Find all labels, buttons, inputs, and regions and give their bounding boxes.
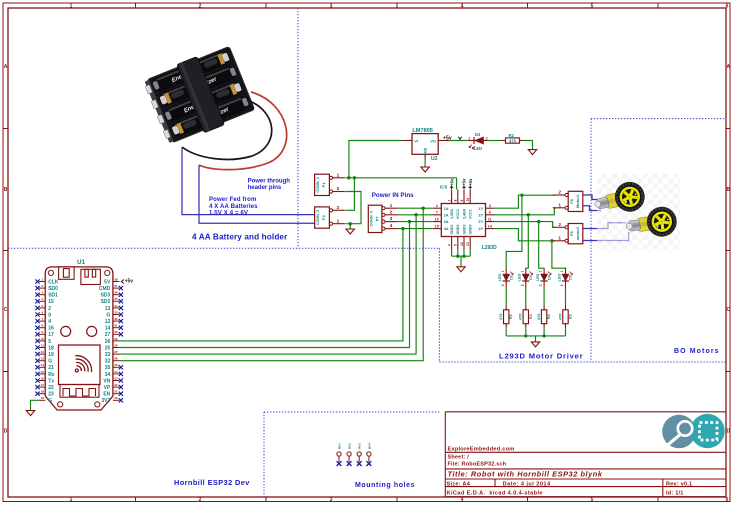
- svg-text:1A: 1A: [444, 206, 449, 211]
- svg-text:3: 3: [489, 204, 491, 208]
- svg-text:34: 34: [114, 304, 118, 308]
- svg-text:D: D: [4, 429, 8, 435]
- U1 left pin Rx: [35, 370, 54, 378]
- junction: [422, 207, 425, 210]
- svg-text:2: 2: [520, 284, 524, 286]
- svg-text:25: 25: [105, 345, 111, 351]
- title block: [445, 412, 726, 497]
- svg-text:LED: LED: [474, 146, 482, 151]
- power +5v at U1 5V pin: [121, 279, 133, 285]
- power +5v at L293D top pin: [468, 178, 473, 189]
- svg-text:12: 12: [105, 319, 111, 325]
- wire battery+ to LM7805 VI: [349, 141, 402, 178]
- wire (blue) P8 to motor1 (b): [583, 206, 601, 211]
- svg-text:Tx: Tx: [48, 378, 54, 384]
- wire R5 to gnd rail: [565, 328, 567, 336]
- svg-text:D4: D4: [475, 132, 481, 137]
- svg-text:3: 3: [330, 3, 333, 9]
- power +5v at L293D top pin: [462, 178, 467, 189]
- wire (blue) battery positive to P2: [199, 165, 315, 223]
- svg-text:1: 1: [558, 202, 561, 208]
- U1 left pin 16: [35, 324, 54, 332]
- svg-text:R2: R2: [509, 133, 515, 138]
- svg-text:C: C: [726, 307, 730, 313]
- svg-text:28: 28: [114, 343, 118, 347]
- power +5v at L293D top pin: [449, 178, 454, 189]
- svg-text:21: 21: [48, 365, 54, 371]
- svg-text:17: 17: [48, 332, 54, 338]
- svg-text:36: 36: [114, 291, 118, 295]
- svg-text:13: 13: [105, 306, 111, 312]
- motor M1 with wheel: [591, 179, 647, 219]
- svg-text:2: 2: [501, 284, 505, 286]
- wire (blue) battery negative to P2: [182, 147, 315, 215]
- U1 left pin 18: [35, 343, 54, 351]
- svg-text:3: 3: [390, 216, 393, 222]
- svg-text:19: 19: [41, 396, 45, 400]
- svg-text:0: 0: [48, 312, 51, 318]
- svg-text:LED: LED: [498, 273, 502, 281]
- svg-text:20: 20: [114, 396, 118, 400]
- svg-text:4: 4: [448, 244, 452, 246]
- svg-text:BO Motors: BO Motors: [674, 348, 720, 355]
- svg-text:32: 32: [105, 359, 111, 365]
- svg-text:VP: VP: [104, 385, 111, 391]
- mounting hole MK3: [357, 443, 362, 466]
- svg-text:1: 1: [337, 172, 340, 178]
- svg-text:470: 470: [537, 314, 541, 320]
- svg-text:CONN_2: CONN_2: [316, 210, 320, 225]
- svg-text:1,2EN: 1,2EN: [450, 209, 454, 219]
- svg-text:1: 1: [337, 218, 340, 224]
- U1 left pin CLK: [35, 277, 59, 285]
- ground below U1: [26, 411, 34, 416]
- ground right of R2: [528, 150, 536, 155]
- wire 3Y net to LED D4b: [539, 222, 544, 269]
- svg-text:25: 25: [114, 363, 118, 367]
- battery pack photo (4 x AA holder): [142, 44, 287, 170]
- svg-text:33: 33: [105, 352, 111, 358]
- svg-text:MK3: MK3: [358, 443, 362, 450]
- U1 left pin SD0: [35, 284, 58, 292]
- svg-text:LED: LED: [536, 273, 540, 281]
- svg-text:4: 4: [461, 3, 464, 9]
- junction: [456, 255, 459, 258]
- svg-text:470: 470: [509, 138, 517, 143]
- svg-text:Power Fed from: Power Fed from: [209, 197, 256, 203]
- svg-text:29: 29: [114, 337, 118, 341]
- wire 1Y net to LED D2: [506, 195, 522, 268]
- svg-text:SD1: SD1: [48, 293, 58, 299]
- svg-text:GND4: GND4: [469, 225, 473, 235]
- svg-text:1: 1: [539, 270, 543, 272]
- svg-text:26: 26: [105, 339, 111, 345]
- resistor R3 470: [519, 306, 533, 329]
- svg-text:2: 2: [436, 204, 438, 208]
- svg-text:R3: R3: [529, 314, 533, 319]
- junction: [520, 194, 523, 197]
- svg-text:13: 13: [41, 357, 45, 361]
- svg-text:11: 11: [41, 343, 45, 347]
- svg-text:13: 13: [466, 242, 470, 246]
- wire P7 pin4 to L293D 4A: [398, 228, 433, 230]
- wire P1 pin2 to P2 pin1 (GND): [345, 192, 361, 224]
- svg-text:Rev: v0.1: Rev: v0.1: [666, 481, 692, 487]
- U1 right pin 25: [105, 343, 120, 351]
- svg-text:5: 5: [591, 497, 594, 503]
- svg-text:15: 15: [41, 370, 45, 374]
- junction: [550, 239, 553, 242]
- svg-text:4 AA Battery and holder: 4 AA Battery and holder: [192, 233, 288, 242]
- svg-text:35: 35: [105, 365, 111, 371]
- svg-text:U1: U1: [77, 259, 85, 266]
- svg-text:35: 35: [114, 297, 118, 301]
- svg-text:22: 22: [48, 385, 54, 391]
- svg-text:3Y: 3Y: [478, 219, 483, 224]
- svg-text:2: 2: [48, 306, 51, 312]
- wire 6V rail down to L293D VCC2: [456, 178, 458, 190]
- svg-text:Title: Robot with Hornbill ESP: Title: Robot with Hornbill ESP32 blynk: [448, 470, 603, 479]
- wire P7 pin2 to L293D 2A: [398, 214, 433, 216]
- svg-text:+5v: +5v: [125, 279, 134, 285]
- svg-text:1: 1: [468, 136, 470, 140]
- LED D4: [536, 268, 551, 287]
- U1 right pin 33: [105, 350, 120, 358]
- svg-text:LED: LED: [557, 273, 561, 281]
- svg-text:D3: D3: [529, 275, 533, 280]
- svg-text:27: 27: [114, 350, 118, 354]
- svg-text:2A: 2A: [444, 212, 449, 217]
- svg-text:P1: P1: [321, 182, 326, 188]
- module U1 Hornbill ESP32: [45, 259, 113, 410]
- svg-text:470: 470: [499, 314, 503, 320]
- svg-text:10: 10: [435, 217, 439, 221]
- wire D5 to R5: [565, 288, 567, 306]
- U1 left pin 17: [35, 330, 54, 338]
- svg-text:12: 12: [460, 242, 464, 246]
- svg-text:14: 14: [41, 363, 45, 367]
- svg-text:2: 2: [199, 497, 202, 503]
- svg-text:MK1: MK1: [338, 443, 342, 450]
- svg-text:KiCad E.D.A. kicad 4.0.4-stab: KiCad E.D.A. kicad 4.0.4-stable: [447, 491, 543, 497]
- svg-text:Motor1: Motor1: [575, 194, 580, 208]
- svg-text:15: 15: [48, 299, 54, 305]
- U1 right pin 32: [105, 357, 120, 365]
- svg-text:1: 1: [390, 203, 393, 209]
- connector P9 motor2: [568, 224, 583, 244]
- svg-text:21: 21: [114, 390, 118, 394]
- svg-text:LED: LED: [518, 273, 522, 281]
- resistor R2 470: [502, 133, 524, 143]
- connector P8 Motor1: [568, 191, 583, 211]
- svg-text:Size: A4: Size: A4: [447, 481, 471, 487]
- svg-text:27: 27: [105, 332, 111, 338]
- section box: L293D Motor Driver / BO Motors: [590, 119, 592, 362]
- connector P7 CONN_4: [368, 205, 382, 232]
- svg-text:CLK: CLK: [48, 279, 59, 285]
- svg-text:1: 1: [520, 270, 524, 272]
- connector P1 CONN_2: [315, 174, 330, 195]
- svg-text:G: G: [106, 312, 110, 318]
- svg-text:B: B: [4, 187, 8, 193]
- svg-text:R5: R5: [569, 314, 573, 319]
- ground below U2: [424, 159, 426, 167]
- U1 left pin 5: [35, 337, 51, 345]
- U1 left pin Tx: [35, 376, 54, 384]
- U1 left pin G: [39, 396, 52, 404]
- svg-text:VCC1: VCC1: [469, 209, 473, 219]
- svg-text:SD2: SD2: [101, 299, 111, 305]
- svg-text:38: 38: [114, 277, 118, 281]
- svg-text:16: 16: [48, 326, 54, 332]
- svg-text:26: 26: [114, 357, 118, 361]
- svg-text:4: 4: [461, 497, 464, 503]
- junction: [347, 176, 350, 179]
- svg-text:2: 2: [558, 222, 561, 228]
- svg-text:16: 16: [466, 198, 470, 202]
- connector P2 CONN_2: [315, 207, 330, 228]
- svg-text:470: 470: [519, 314, 523, 320]
- svg-text:SD3: SD3: [101, 293, 111, 299]
- U1 right pin SD2: [101, 297, 123, 305]
- svg-text:G: G: [48, 359, 52, 365]
- svg-text:+5v: +5v: [449, 178, 454, 186]
- U1 right pin 13: [105, 304, 123, 312]
- LED D4: [468, 132, 489, 151]
- svg-text:Mounting holes: Mounting holes: [355, 482, 415, 489]
- section box: Hornbill ESP32 Dev / Mounting holes: [438, 248, 440, 362]
- wire (blue) P8 to motor1 (a): [583, 195, 600, 200]
- wire R1 to gnd rail: [505, 328, 507, 336]
- svg-text:2: 2: [560, 284, 564, 286]
- wire (blue) P9 to motor2 (a): [583, 223, 627, 229]
- U1 left pin 19: [35, 350, 54, 358]
- svg-text:5V: 5V: [104, 279, 111, 285]
- LED D2: [498, 268, 513, 287]
- svg-text:L293D Motor Driver: L293D Motor Driver: [499, 352, 583, 361]
- wire 1Y to P8 pin2: [494, 195, 554, 208]
- svg-text:motor2: motor2: [575, 226, 580, 240]
- svg-text:4 X AA Batteries: 4 X AA Batteries: [209, 204, 258, 210]
- U1 right pin 35: [105, 363, 123, 371]
- svg-text:MK4: MK4: [367, 443, 371, 450]
- svg-text:4Y: 4Y: [478, 226, 483, 231]
- svg-text:VO: VO: [430, 139, 436, 144]
- svg-text:18: 18: [41, 390, 45, 394]
- wire L293D 3A net to ESP32 pin 25: [120, 222, 410, 348]
- U1 right pin 12: [105, 317, 123, 325]
- svg-text:LM7805: LM7805: [412, 128, 433, 134]
- ExploreEmbedded logo: [662, 414, 725, 449]
- svg-text:4: 4: [390, 223, 393, 229]
- svg-text:6: 6: [726, 3, 729, 9]
- svg-text:1: 1: [70, 497, 73, 503]
- svg-text:1: 1: [560, 270, 564, 272]
- U1 left pin G: [35, 357, 52, 365]
- svg-text:A: A: [4, 64, 8, 70]
- svg-text:24: 24: [114, 370, 118, 374]
- ground below L293D: [457, 267, 465, 272]
- wire U1 G pin to ground: [31, 400, 39, 410]
- svg-text:2: 2: [558, 190, 561, 196]
- svg-text:2: 2: [539, 284, 543, 286]
- svg-text:8: 8: [454, 200, 458, 202]
- wire 4Y to P9 pin1: [494, 229, 554, 241]
- svg-text:4A: 4A: [444, 226, 449, 231]
- svg-text:+5v: +5v: [443, 135, 452, 141]
- U1 right pin 14: [105, 324, 123, 332]
- svg-text:GND2: GND2: [456, 225, 460, 235]
- svg-text:15: 15: [435, 224, 439, 228]
- svg-text:Date: 4 jul 2014: Date: 4 jul 2014: [503, 481, 551, 487]
- wire P1 pin1 rail to P2 pin2: [345, 178, 354, 211]
- svg-text:22: 22: [114, 383, 118, 387]
- svg-text:14: 14: [105, 326, 111, 332]
- svg-text:3V3: 3V3: [101, 398, 110, 404]
- svg-text:+5v: +5v: [462, 178, 467, 186]
- svg-text:2: 2: [337, 186, 340, 192]
- wire D3 to R3: [525, 288, 527, 306]
- svg-text:5: 5: [48, 339, 51, 345]
- svg-text:Sheet: /: Sheet: /: [448, 455, 470, 461]
- U1 left pin 22: [35, 383, 54, 391]
- svg-text:7: 7: [436, 211, 438, 215]
- svg-text:1: 1: [70, 3, 73, 9]
- svg-text:CONN_4: CONN_4: [370, 210, 374, 226]
- svg-text:11: 11: [488, 217, 492, 221]
- svg-text:3: 3: [330, 497, 333, 503]
- svg-text:B: B: [726, 187, 730, 193]
- svg-text:17: 17: [41, 383, 45, 387]
- svg-text:2: 2: [390, 209, 393, 215]
- U1 right pin SD3: [101, 291, 123, 299]
- wire L293D 1A net to ESP32 pin 32: [120, 208, 424, 361]
- wire D4 to R2: [488, 140, 501, 142]
- svg-text:+5v: +5v: [468, 178, 473, 186]
- svg-text:18: 18: [48, 345, 54, 351]
- svg-text:D5: D5: [569, 275, 573, 280]
- svg-text:6: 6: [489, 211, 491, 215]
- svg-text:37: 37: [114, 284, 118, 288]
- svg-text:1: 1: [501, 270, 505, 272]
- wire D4 to R4: [543, 288, 545, 306]
- svg-text:P2: P2: [321, 214, 326, 220]
- wire L293D GND pins to ground: [452, 250, 471, 267]
- svg-text:L293D: L293D: [482, 245, 497, 251]
- svg-text:1.5V X 4 = 6V: 1.5V X 4 = 6V: [209, 211, 248, 217]
- svg-text:30: 30: [114, 330, 118, 334]
- svg-text:34: 34: [105, 372, 111, 378]
- svg-text:Id: 1/1: Id: 1/1: [666, 491, 684, 497]
- wire U2 VO to +5V node: [450, 140, 468, 142]
- wire 6V rail (P1 pin1 to L293D VCC2): [345, 177, 456, 179]
- wire L293D 4A net to ESP32 pin 26: [120, 229, 403, 341]
- battery red lead wire: [199, 92, 287, 170]
- svg-text:23: 23: [48, 392, 54, 398]
- resistor R1 470: [499, 306, 513, 329]
- svg-text:P8: P8: [570, 199, 574, 204]
- svg-text:IC5: IC5: [440, 184, 448, 189]
- svg-text:VN: VN: [103, 378, 110, 384]
- svg-text:4: 4: [48, 319, 51, 325]
- svg-text:6: 6: [726, 497, 729, 503]
- ground below P2: [349, 224, 351, 229]
- junction: [524, 334, 527, 337]
- wire 2Y to P8 pin1: [494, 208, 556, 215]
- svg-text:P9: P9: [570, 231, 574, 236]
- svg-text:31: 31: [114, 324, 118, 328]
- svg-text:U2: U2: [431, 156, 438, 162]
- svg-text:1Y: 1Y: [478, 206, 483, 211]
- svg-text:23: 23: [114, 376, 118, 380]
- svg-text:1: 1: [558, 235, 561, 241]
- U1 right pin 27: [105, 330, 123, 338]
- U1 left pin SD1: [35, 291, 58, 299]
- svg-text:Hornbill ESP32 Dev: Hornbill ESP32 Dev: [174, 478, 250, 487]
- section box: 4 AA Battery and holder: [297, 8, 299, 248]
- wire R4 to gnd rail: [543, 328, 545, 336]
- U1 left pin 4: [35, 317, 51, 325]
- svg-text:2: 2: [199, 3, 202, 9]
- junction: [349, 222, 352, 225]
- svg-text:CMD: CMD: [99, 286, 111, 292]
- svg-text:5: 5: [591, 3, 594, 9]
- svg-text:12: 12: [41, 350, 45, 354]
- svg-text:VCC2: VCC2: [456, 209, 460, 219]
- svg-text:2: 2: [486, 136, 488, 140]
- svg-text:2Y: 2Y: [478, 212, 483, 217]
- svg-text:Power IN Pins: Power IN Pins: [372, 192, 414, 199]
- svg-text:2: 2: [337, 205, 340, 211]
- LED D3: [518, 268, 533, 287]
- svg-text:9: 9: [460, 200, 464, 202]
- mounting hole MK2: [347, 443, 352, 466]
- U1 right pin VN: [103, 376, 123, 384]
- wire R3 to gnd rail: [525, 328, 527, 336]
- U1 right pin 26: [105, 337, 120, 345]
- power +5v node at U2 output: [443, 135, 462, 141]
- svg-text:470: 470: [558, 314, 562, 320]
- U1 right pin G: [106, 310, 123, 318]
- svg-text:GND3: GND3: [462, 225, 466, 235]
- motor M2 with wheel: [624, 205, 679, 242]
- svg-text:File: RoboESP32.sch: File: RoboESP32.sch: [448, 462, 507, 468]
- svg-text:EN: EN: [103, 392, 110, 398]
- wire P7 pin3 to L293D 3A: [398, 221, 433, 223]
- U1 right pin 5V: [104, 277, 119, 285]
- regulator U2 LM7805: [402, 128, 450, 162]
- svg-text:GND1: GND1: [450, 225, 454, 235]
- svg-text:16: 16: [41, 376, 45, 380]
- svg-text:CONN_2: CONN_2: [316, 177, 320, 192]
- LED D5: [557, 268, 572, 287]
- wire L293D 2A net to ESP32 pin 33: [120, 215, 417, 354]
- svg-text:Rx: Rx: [48, 372, 55, 378]
- U1 right pin 34: [105, 370, 123, 378]
- svg-text:A: A: [726, 64, 730, 70]
- U1 left pin 15: [35, 297, 54, 305]
- svg-text:33: 33: [114, 310, 118, 314]
- svg-text:D: D: [726, 429, 730, 435]
- svg-text:1: 1: [448, 200, 452, 202]
- svg-text:D2: D2: [509, 275, 513, 280]
- svg-text:G: G: [48, 398, 52, 404]
- svg-text:Power through: Power through: [248, 178, 291, 184]
- ground below LED rail: [535, 336, 537, 342]
- U1 right pin EN: [103, 390, 123, 398]
- svg-text:3,4EN: 3,4EN: [462, 209, 466, 219]
- battery black lead wire: [182, 100, 272, 159]
